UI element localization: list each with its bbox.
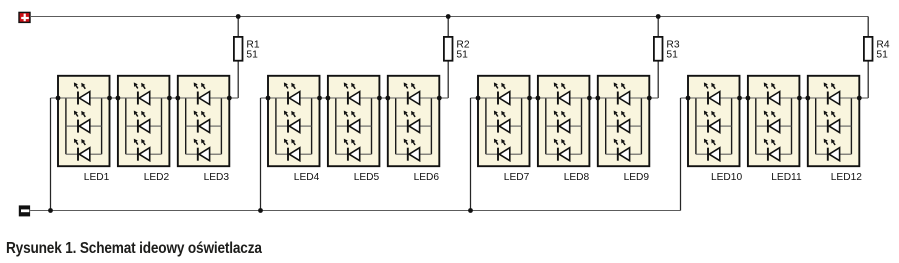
svg-text:LED10: LED10: [711, 172, 742, 183]
resistor R2: [444, 37, 453, 61]
wire from LED group 3 left node down to bottom rail: [471, 98, 479, 211]
LED module LED3: [175, 76, 231, 166]
label R2 value 51: [456, 39, 469, 60]
wire from top rail to R2 and down to LED group 2 right node: [439, 17, 448, 99]
LED module LED12: [805, 76, 861, 166]
label LED9: [624, 172, 650, 183]
svg-text:51: 51: [666, 50, 678, 61]
junction on bottom rail at group 1 return: [48, 208, 53, 213]
LED module LED5: [326, 76, 382, 166]
svg-text:51: 51: [456, 50, 468, 61]
wire link LED5 to LED6: [379, 97, 387, 99]
LED module LED10: [686, 76, 742, 166]
resistor R1: [234, 37, 243, 61]
label LED12: [831, 172, 862, 183]
label R3 value 51: [666, 39, 679, 60]
svg-text:51: 51: [246, 50, 258, 61]
junction on bottom rail at group 2 return: [258, 208, 263, 213]
junction on top rail at R3: [656, 14, 661, 19]
label LED8: [564, 172, 590, 183]
svg-text:LED6: LED6: [414, 172, 440, 183]
LED module LED4: [266, 76, 322, 166]
wire top positive rail: [30, 16, 868, 18]
wire link LED10 to LED11: [740, 97, 748, 99]
svg-text:LED1: LED1: [84, 172, 110, 183]
label LED10: [711, 172, 742, 183]
wire from LED group 4 left node down to bottom rail: [681, 98, 689, 211]
svg-text:LED8: LED8: [564, 172, 590, 183]
svg-text:LED3: LED3: [204, 172, 230, 183]
svg-text:LED2: LED2: [144, 172, 170, 183]
+ supply terminal: [19, 12, 30, 22]
LED module LED11: [746, 76, 802, 166]
LED module LED6: [385, 76, 441, 166]
label R1 value 51: [246, 39, 259, 60]
junction on top rail at R2: [446, 14, 451, 19]
label LED3: [204, 172, 230, 183]
svg-text:LED4: LED4: [294, 172, 320, 183]
wire link LED2 to LED3: [169, 97, 177, 99]
LED module LED8: [536, 76, 592, 166]
wire link LED4 to LED5: [320, 97, 328, 99]
label LED4: [294, 172, 320, 183]
wire from LED group 1 left node down to bottom rail: [51, 98, 59, 211]
wire from top rail to R4 and down to LED group 4 right node: [859, 17, 868, 99]
wire from LED group 2 left node down to bottom rail: [261, 98, 269, 211]
caption Rysunek 1: [6, 240, 262, 258]
wire link LED11 to LED12: [799, 97, 807, 99]
resistor R4: [864, 37, 873, 61]
wire bottom negative rail: [30, 210, 680, 212]
svg-text:LED7: LED7: [504, 172, 530, 183]
LED module LED9: [595, 76, 651, 166]
- supply terminal: [19, 205, 30, 216]
label LED6: [414, 172, 440, 183]
junction on top rail at R1: [236, 14, 241, 19]
svg-text:LED12: LED12: [831, 172, 862, 183]
svg-text:LED5: LED5: [354, 172, 380, 183]
label LED11: [771, 172, 802, 183]
label LED5: [354, 172, 380, 183]
svg-text:LED11: LED11: [771, 172, 802, 183]
wire from top rail to R1 and down to LED group 1 right node: [229, 17, 238, 99]
resistor R3: [654, 37, 663, 61]
wire link LED1 to LED2: [110, 97, 118, 99]
LED module LED7: [476, 76, 532, 166]
wire from top rail to R3 and down to LED group 3 right node: [649, 17, 658, 99]
wire link LED7 to LED8: [530, 97, 538, 99]
label LED1: [84, 172, 110, 183]
svg-text:51: 51: [876, 50, 888, 61]
label R4 value 51: [876, 39, 889, 60]
LED module LED1: [56, 76, 112, 166]
label LED2: [144, 172, 170, 183]
wire link LED8 to LED9: [589, 97, 597, 99]
junction on bottom rail at group 3 return: [468, 208, 473, 213]
label LED7: [504, 172, 530, 183]
LED module LED2: [116, 76, 172, 166]
svg-text:LED9: LED9: [624, 172, 650, 183]
